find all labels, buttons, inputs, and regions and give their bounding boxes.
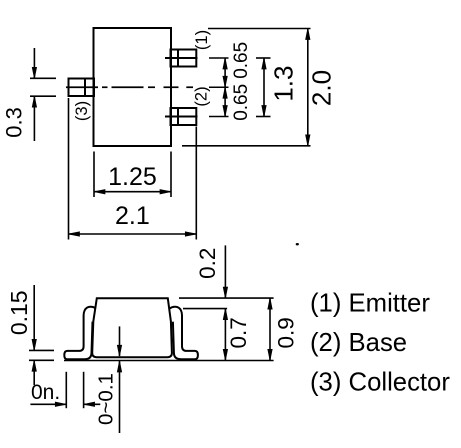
svg-text:0.9: 0.9 (274, 317, 299, 348)
seating plane line (64, 360, 274, 362)
dim 0.9 (268, 298, 299, 360)
dim 1.3 (right) (256, 58, 299, 117)
svg-text:0.7: 0.7 (226, 317, 251, 348)
svg-text:0.3: 0.3 (2, 107, 27, 138)
svg-text:2.1: 2.1 (115, 202, 150, 230)
svg-text:0.2: 0.2 (195, 248, 220, 279)
svg-text:2.0: 2.0 (307, 70, 337, 106)
left lead (side view, gull wing) (64, 307, 96, 360)
dim 0.2 (top right of side view) (179, 245, 274, 308)
dim 2.1 (below leads) (69, 98, 197, 240)
svg-text:1.3: 1.3 (269, 66, 299, 102)
dim 0.7 (223, 309, 251, 361)
svg-text:0.65: 0.65 (231, 42, 252, 79)
svg-text:1.25: 1.25 (108, 163, 157, 191)
dim 0.3 (left of top view) (2, 48, 57, 141)
lead pin 1 (top right) (165, 50, 198, 67)
svg-text:0n.: 0n. (31, 381, 60, 404)
dim 0~0.1 (stand-off) (95, 326, 122, 433)
svg-text:(1): (1) (193, 30, 211, 50)
dust speck (296, 243, 299, 245)
right lead (side view, gull wing) (170, 307, 198, 360)
dim 0n. (foot length, below left foot) (30, 372, 100, 408)
svg-text:0.15: 0.15 (6, 290, 32, 335)
package body (side view) (92, 298, 172, 357)
lead pin 2 (bottom right) (165, 108, 198, 125)
svg-text:(3) Collector: (3) Collector (310, 369, 450, 397)
svg-text:(3): (3) (73, 101, 91, 121)
lead pin 3 (left) (69, 79, 95, 97)
dim 1.25 (below body) (94, 152, 171, 198)
svg-text:(1) Emitter: (1) Emitter (310, 289, 430, 317)
dim 0.15 (left of side view) (6, 285, 54, 385)
svg-text:0~0.1: 0~0.1 (95, 373, 118, 425)
package body (top view) (94, 28, 172, 146)
svg-text:(2) Base: (2) Base (310, 329, 407, 357)
svg-text:0.65: 0.65 (231, 84, 252, 121)
dim 2.0 (far right) (182, 29, 337, 146)
center line (dash-dot) (66, 86, 193, 88)
dim 0.65 x2 (right of top view) (209, 42, 252, 121)
svg-text:(2): (2) (193, 86, 211, 106)
